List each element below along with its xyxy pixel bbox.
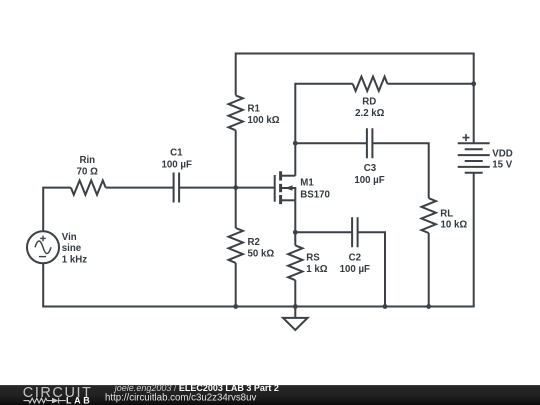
svg-text:15 V: 15 V: [492, 160, 512, 171]
node R2 bottom junction: [233, 304, 238, 309]
voltage source Vin minus: [39, 256, 46, 258]
transistor M1 channel bars: [279, 171, 282, 204]
svg-text:1 kΩ: 1 kΩ: [306, 264, 327, 275]
ground stub: [294, 307, 296, 318]
ground symbol: [283, 318, 308, 330]
wire R2 bottom lead: [235, 263, 237, 307]
svg-text:RS: RS: [306, 252, 320, 263]
svg-text:LAB: LAB: [66, 395, 92, 405]
svg-text:R2: R2: [248, 237, 260, 248]
svg-text:2.2 kΩ: 2.2 kΩ: [355, 108, 385, 119]
resistor RL: [422, 198, 436, 233]
wire top rail from R1 top to VDD top: [236, 54, 474, 144]
svg-text:sine: sine: [62, 243, 82, 254]
wire source column down to RS: [294, 200, 296, 245]
svg-text:RD: RD: [362, 96, 376, 107]
capacitor C2: [352, 217, 358, 247]
capacitor C3: [367, 128, 373, 158]
svg-text:C3: C3: [364, 163, 377, 174]
battery VDD plus sign: [463, 134, 470, 141]
svg-text:http://circuitlab.com/c3u2z34r: http://circuitlab.com/c3u2z34rvs8uv: [105, 393, 256, 404]
wire Vin bottom lead and bottom rail to VDD: [43, 173, 474, 307]
svg-text:70 Ω: 70 Ω: [77, 166, 98, 177]
svg-text:100 µF: 100 µF: [340, 264, 370, 275]
wire RL bottom lead: [428, 233, 430, 307]
voltage source Vin sine: [35, 241, 51, 253]
voltage source Vin circle: [27, 231, 59, 263]
logo diode triangle: [52, 398, 59, 404]
capacitor C1: [174, 173, 180, 203]
svg-text:BS170: BS170: [300, 189, 330, 200]
svg-text:1 kHz: 1 kHz: [62, 254, 87, 265]
wire Vin top lead: [43, 188, 71, 232]
transistor M1 body lead: [282, 188, 296, 200]
transistor M1 drain lead: [282, 175, 296, 177]
svg-text:C2: C2: [349, 252, 361, 263]
svg-text:R1: R1: [248, 103, 261, 114]
wire C3 right lead to RL top: [372, 143, 428, 198]
node RD-VDD junction: [471, 81, 476, 86]
svg-text:100 µF: 100 µF: [354, 175, 384, 186]
svg-text:Rin: Rin: [79, 155, 95, 166]
node C2 bottom junction: [383, 304, 388, 309]
battery VDD plates: [458, 143, 490, 173]
svg-text:100 µF: 100 µF: [162, 159, 192, 170]
svg-text:VDD: VDD: [492, 149, 512, 160]
wire C1 to MOSFET gate: [179, 187, 275, 189]
node drain junction: [293, 141, 298, 146]
voltage source Vin plus: [40, 236, 46, 242]
wire R1 bottom lead down to gate node and R2 top lead: [235, 130, 237, 228]
wire C3 left lead from drain node: [295, 142, 367, 144]
svg-text:Vin: Vin: [62, 232, 77, 243]
resistor RD: [353, 77, 388, 91]
resistor R1: [229, 95, 243, 130]
wire RS bottom lead: [294, 280, 296, 306]
node RL bottom junction: [426, 304, 431, 309]
logo wire with resistor and diode: [24, 398, 66, 404]
node RS-C2 junction: [293, 230, 298, 235]
wire RS node to C2: [295, 231, 352, 233]
node ground junction: [293, 304, 298, 309]
svg-text:joele.eng2003 / ELEC2003 LAB 3: joele.eng2003 / ELEC2003 LAB 3 Part 2: [114, 383, 279, 393]
wire C2 right lead down to bottom rail: [358, 232, 385, 306]
transistor M1 body arrow: [285, 185, 293, 190]
transistor M1 source lead: [282, 199, 296, 201]
svg-text:C1: C1: [170, 148, 183, 159]
svg-text:M1: M1: [300, 177, 314, 188]
resistor Rin: [71, 180, 106, 194]
svg-text:RL: RL: [440, 208, 453, 219]
svg-text:100 kΩ: 100 kΩ: [248, 115, 280, 126]
wire RD right lead to VDD column: [387, 83, 473, 85]
svg-text:10 kΩ: 10 kΩ: [441, 220, 468, 231]
wire Rin to C1: [106, 187, 174, 189]
resistor RS: [288, 245, 302, 280]
node gate junction: [233, 185, 238, 190]
resistor R2: [229, 228, 243, 263]
svg-text:50 kΩ: 50 kΩ: [248, 249, 275, 260]
transistor M1 gate bar: [274, 175, 276, 202]
wire drain column up and RD left lead: [295, 84, 352, 176]
